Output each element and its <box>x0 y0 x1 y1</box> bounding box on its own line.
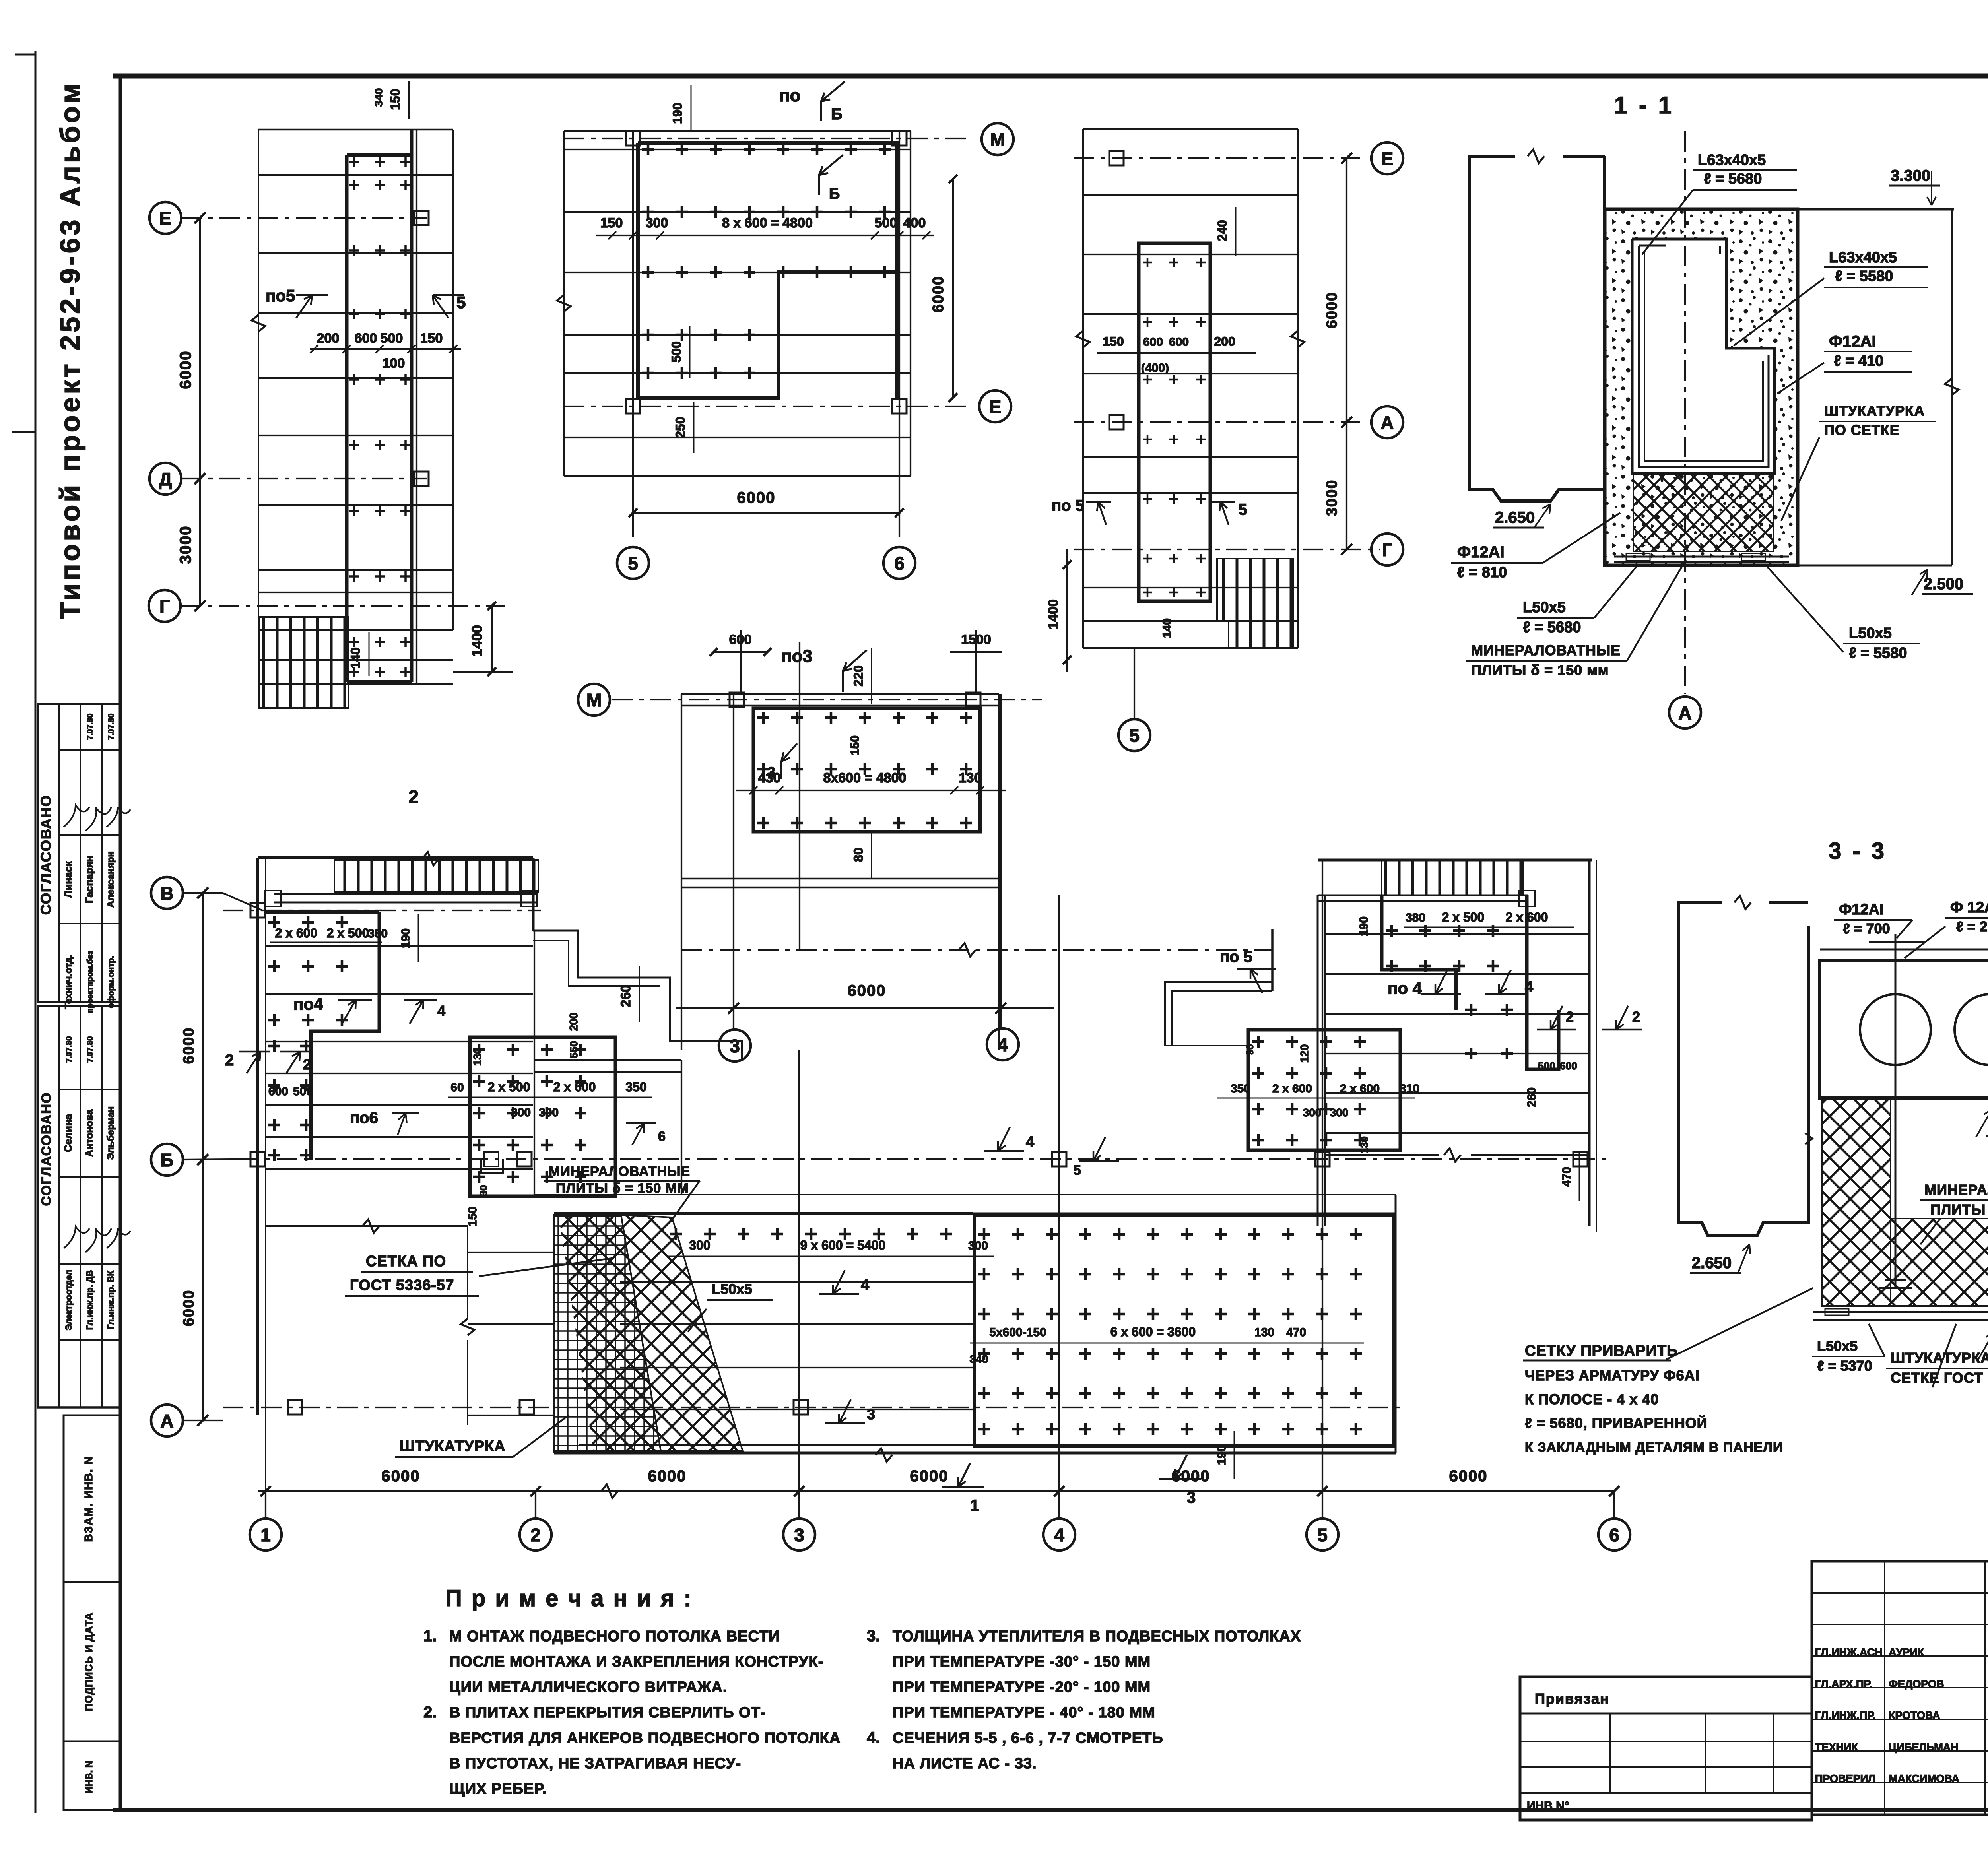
dim row 150 300 8x600=4800 500 400 <box>596 235 934 236</box>
svg-text:150: 150 <box>600 215 623 231</box>
svg-text:3: 3 <box>767 764 775 780</box>
svg-text:550: 550 <box>568 1041 580 1058</box>
axis Д dash line <box>181 478 427 479</box>
grid verticals 5 and 6 <box>632 131 634 537</box>
svg-text:7.07.80: 7.07.80 <box>65 1036 74 1063</box>
big plan: axis circles left В Б А <box>151 877 183 909</box>
svg-text:1.: 1. <box>423 1627 437 1645</box>
big plan: axis Б dash full width <box>184 1159 239 1160</box>
svg-text:(400): (400) <box>1141 361 1169 374</box>
svg-text:6000: 6000 <box>181 1027 197 1064</box>
bottom dim 6000 between 5 and 6 <box>633 512 899 514</box>
axis circle Д <box>149 463 181 495</box>
по3 axis verticals 3 and 4 <box>733 694 734 1008</box>
svg-text:Е: Е <box>159 208 172 229</box>
svg-text:СЕТКЕ ГОСТ 5336-57: СЕТКЕ ГОСТ 5336-57 <box>1891 1370 1988 1386</box>
big plan: top edge left wing <box>258 856 533 859</box>
sheet edge line left <box>35 51 37 1813</box>
svg-text:4.: 4. <box>867 1729 880 1746</box>
strip panel thick walls <box>345 155 349 682</box>
svg-text:ℓ = 5580: ℓ = 5580 <box>1849 645 1907 662</box>
3-3 plaster bottom <box>1813 1311 1988 1313</box>
svg-text:Б: Б <box>160 1150 173 1170</box>
dim 1400 left <box>1066 549 1068 672</box>
margin strip Взам.инв. <box>64 1415 121 1582</box>
svg-text:проектпром.без: проектпром.без <box>86 951 95 1013</box>
axis circle М right <box>982 123 1013 155</box>
svg-text:5: 5 <box>456 293 466 312</box>
svg-text:Типовой проект 252-9-63 Альбо: Типовой проект 252-9-63 Альбом <box>54 80 85 619</box>
svg-text:2 x 500: 2 x 500 <box>327 926 369 940</box>
svg-text:190: 190 <box>670 103 685 124</box>
margin strip Подпись и дата <box>64 1582 121 1741</box>
svg-text:5: 5 <box>1074 1163 1081 1178</box>
Е axis dash of по3 bay <box>681 949 1272 951</box>
axis Е dash line <box>564 406 970 407</box>
1-1 circle А <box>1669 697 1701 728</box>
thick panel boundary with step <box>638 143 897 398</box>
svg-text:П р и м е ч а н и я :: П р и м е ч а н и я : <box>445 1585 693 1611</box>
outer verticals <box>681 694 682 1050</box>
svg-text:9 x 600 = 5400: 9 x 600 = 5400 <box>800 1238 885 1252</box>
outer thin rect <box>564 149 911 150</box>
vertical dim line Е-Г <box>199 218 201 606</box>
lower plan: cut mark 5 <box>1079 1137 1119 1161</box>
svg-text:М: М <box>990 129 1005 150</box>
panel plus rows <box>642 144 891 155</box>
svg-text:L50x5: L50x5 <box>1817 1338 1858 1354</box>
svg-text:2.: 2. <box>423 1704 437 1721</box>
svg-text:5: 5 <box>628 553 638 574</box>
svg-text:2: 2 <box>303 1056 311 1073</box>
axis squares <box>1109 151 1124 165</box>
svg-text:Д: Д <box>159 469 172 489</box>
svg-text:1: 1 <box>970 1497 979 1514</box>
thick panel rect <box>753 708 980 832</box>
svg-text:4: 4 <box>1026 1134 1034 1151</box>
svg-text:300: 300 <box>646 215 668 231</box>
drawing 3: strip plan along axis 5 (middle) <box>1082 129 1084 648</box>
big plan: col 5 axis line <box>1322 860 1323 1491</box>
svg-text:380: 380 <box>1406 911 1425 924</box>
svg-text:Ф12АІ: Ф12АІ <box>1839 901 1884 918</box>
svg-text:А: А <box>160 1411 173 1431</box>
svg-text:СЕТКУ ПРИВАРИТЬ: СЕТКУ ПРИВАРИТЬ <box>1525 1343 1678 1359</box>
grid circle 3 <box>798 1491 800 1519</box>
svg-text:2.650: 2.650 <box>1692 1254 1732 1272</box>
axis square markers <box>414 211 429 225</box>
svg-text:2 x 600: 2 x 600 <box>275 926 318 940</box>
svg-text:ℓ = 200: ℓ = 200 <box>1956 918 1988 935</box>
svg-text:НА ЛИСТЕ АС - 33.: НА ЛИСТЕ АС - 33. <box>893 1755 1037 1772</box>
big plan: right wing slab lines <box>1325 933 1589 935</box>
big plan: right wing stair hatch <box>1382 860 1523 895</box>
svg-text:В ПУСТОТАХ, НЕ ЗАТРАГИВАЯ: В ПУСТОТАХ, НЕ ЗАТРАГИВАЯ НЕСУ- <box>449 1755 741 1772</box>
svg-text:КРОТОВА: КРОТОВА <box>1889 1709 1940 1721</box>
svg-text:6: 6 <box>894 553 905 574</box>
svg-text:ПРОВЕРИЛ: ПРОВЕРИЛ <box>1815 1773 1875 1785</box>
svg-text:470: 470 <box>1286 1326 1306 1339</box>
svg-text:6 x 600 = 3600: 6 x 600 = 3600 <box>1110 1325 1196 1339</box>
svg-text:ШТУКАТУРКА: ШТУКАТУРКА <box>400 1438 506 1455</box>
dim line Е-Г right <box>1346 158 1347 549</box>
svg-text:6000: 6000 <box>930 276 947 313</box>
lower plan: left corridor boundary <box>266 1225 468 1227</box>
svg-text:80: 80 <box>851 848 866 862</box>
svg-text:оформ.онтр.: оформ.онтр. <box>107 956 116 1008</box>
svg-text:L50x5: L50x5 <box>712 1281 752 1297</box>
svg-text:М: М <box>586 690 602 710</box>
svg-text:Эльберман: Эльберман <box>105 1106 116 1160</box>
dim 1400 right <box>491 606 493 672</box>
svg-text:1400: 1400 <box>469 625 485 657</box>
svg-text:2.650: 2.650 <box>1495 509 1535 526</box>
dim row 430 8x600=4800 130 <box>736 790 1006 791</box>
svg-text:L50x5: L50x5 <box>1849 625 1892 642</box>
axis circle Е <box>1371 142 1403 174</box>
svg-text:Гл.инж.пр. ВК: Гл.инж.пр. ВК <box>106 1270 116 1329</box>
svg-text:400: 400 <box>903 215 926 231</box>
svg-text:7.07.80: 7.07.80 <box>107 714 116 740</box>
svg-text:250: 250 <box>673 417 687 438</box>
svg-text:3.300: 3.300 <box>1891 167 1930 184</box>
3-3 anchor rod <box>1895 934 1897 1098</box>
svg-text:30: 30 <box>478 1185 489 1197</box>
svg-text:3000: 3000 <box>1324 479 1340 516</box>
svg-text:А: А <box>1678 702 1691 723</box>
dims 200 600 500 150 <box>310 348 461 350</box>
svg-text:Ф12АІ: Ф12АІ <box>1457 543 1505 561</box>
svg-text:1 - 1: 1 - 1 <box>1614 92 1674 118</box>
1-1 bottom plaster strips <box>1614 556 1789 558</box>
svg-text:ПРИ ТЕМПЕРАТУРЕ - 40° -: ПРИ ТЕМПЕРАТУРЕ - 40° - 180 ММ <box>893 1704 1155 1721</box>
svg-text:ЦИИ МЕТАЛЛИЧЕСКОГО ВИТРАЖ: ЦИИ МЕТАЛЛИЧЕСКОГО ВИТРАЖА. <box>449 1679 727 1696</box>
svg-text:по 5: по 5 <box>1052 497 1084 514</box>
svg-text:ВЗАМ. ИНВ. N: ВЗАМ. ИНВ. N <box>82 1456 95 1542</box>
axis circle Г <box>149 590 181 622</box>
big plan: stair landing double line <box>274 893 538 895</box>
svg-text:6: 6 <box>658 1129 666 1144</box>
svg-text:340: 340 <box>373 88 385 107</box>
lower plan: cut mark 4 upper <box>819 1270 859 1294</box>
svg-text:600: 600 <box>1560 1060 1577 1072</box>
grid circle 4 <box>1058 1491 1060 1519</box>
svg-text:300: 300 <box>689 1238 710 1252</box>
svg-text:6000: 6000 <box>1449 1467 1488 1485</box>
grid circle 2 <box>535 1491 536 1519</box>
big plan: break marks on dim line <box>601 1484 618 1498</box>
svg-text:по: по <box>779 86 800 105</box>
svg-text:350: 350 <box>1231 1082 1250 1095</box>
svg-text:ℓ = 700: ℓ = 700 <box>1843 920 1890 937</box>
svg-text:Селина: Селина <box>62 1114 74 1152</box>
axis М dash line <box>564 138 970 139</box>
big plan: right wing top edge <box>1318 859 1592 862</box>
big plan: dims 60 2x500 2x600 350 <box>448 1097 652 1098</box>
svg-text:Технич.отд.: Технич.отд. <box>63 955 74 1009</box>
svg-text:ПЛИТЫ δ = 150 мм: ПЛИТЫ δ = 150 мм <box>1471 662 1609 678</box>
svg-text:2: 2 <box>1566 1009 1574 1025</box>
lower plan: plus band top <box>670 1228 952 1240</box>
axis Е dash <box>1074 157 1360 159</box>
svg-text:3.: 3. <box>867 1627 880 1645</box>
lower plan: mineral wool crosshatch band <box>621 1215 743 1451</box>
svg-text:6000: 6000 <box>737 489 776 506</box>
svg-text:7.07.80: 7.07.80 <box>86 1036 95 1063</box>
svg-text:6000: 6000 <box>910 1467 949 1485</box>
3-3 slab with hollow cores <box>1820 960 1988 1098</box>
svg-text:380: 380 <box>368 927 388 940</box>
big plan: opening stepped boundary <box>533 931 742 1060</box>
svg-text:по 5: по 5 <box>1220 948 1252 966</box>
svg-text:500: 500 <box>1538 1060 1555 1072</box>
axis squares on М and Е <box>626 131 640 146</box>
svg-text:500: 500 <box>293 1085 313 1098</box>
1-1 ceiling line right <box>1798 208 1954 211</box>
svg-text:150: 150 <box>848 735 862 755</box>
big plan: axis А dash <box>184 1420 223 1421</box>
axis circle А <box>1371 406 1403 438</box>
svg-text:Г: Г <box>159 596 170 617</box>
svg-text:100: 100 <box>382 356 405 371</box>
big plan: right wing walls <box>1317 895 1319 1226</box>
axis circle М <box>578 684 610 716</box>
3-3 left wall <box>1678 926 1808 1235</box>
svg-text:ГЛ.ИНЖ.ПР.: ГЛ.ИНЖ.ПР. <box>1815 1709 1876 1721</box>
axis М dash line <box>612 699 1042 700</box>
signature table <box>1812 1561 1988 1815</box>
big plan: axis Б square markers <box>250 1152 265 1166</box>
svg-text:Е: Е <box>1381 148 1394 169</box>
lower plan: dims 6x600=3600 <box>970 1343 1364 1344</box>
big plan: right wing plus rows <box>1386 925 1499 937</box>
svg-text:3: 3 <box>730 1036 740 1056</box>
svg-text:3: 3 <box>794 1525 804 1545</box>
svg-text:ГЛ.ИНЖ.АСН: ГЛ.ИНЖ.АСН <box>1815 1646 1883 1658</box>
svg-text:150: 150 <box>388 89 402 110</box>
svg-text:Г: Г <box>1382 539 1392 560</box>
svg-text:500: 500 <box>875 215 897 231</box>
svg-text:470: 470 <box>1560 1167 1573 1187</box>
svg-text:2: 2 <box>225 1052 234 1069</box>
svg-text:130: 130 <box>959 770 982 786</box>
svg-text:по4: по4 <box>293 995 323 1013</box>
dim 600 top left <box>740 630 742 692</box>
svg-text:6000: 6000 <box>1172 1467 1210 1485</box>
svg-text:ПЛИТЫ δ = 150 ММ: ПЛИТЫ δ = 150 ММ <box>1930 1201 1988 1218</box>
grid circle 5 <box>1118 719 1150 751</box>
axis Г dash <box>1074 549 1380 550</box>
svg-text:190: 190 <box>399 928 412 948</box>
svg-text:130: 130 <box>1358 1136 1370 1153</box>
svg-text:2 x 600: 2 x 600 <box>1506 910 1548 924</box>
big plan: axis А square markers <box>288 1400 302 1415</box>
big plan: bottom dimension line <box>258 1490 1614 1492</box>
svg-text:ℓ = 410: ℓ = 410 <box>1834 353 1883 369</box>
3-3 left crosshatch column <box>1822 1098 1891 1306</box>
big plan: middle panel right (straddling col5) <box>1248 1030 1400 1150</box>
svg-text:220: 220 <box>851 665 866 686</box>
svg-text:МИНЕРАЛОВАТНЫЕ: МИНЕРАЛОВАТНЫЕ <box>1471 642 1621 658</box>
svg-text:СЕЧЕНИЯ 5-5 , 6-6 , 7-7 СМО: СЕЧЕНИЯ 5-5 , 6-6 , 7-7 СМОТРЕТЬ <box>893 1730 1163 1746</box>
double top line <box>681 693 999 695</box>
svg-text:200: 200 <box>1214 334 1235 349</box>
svg-text:К ПОЛОСЕ - 4 х 40: К ПОЛОСЕ - 4 х 40 <box>1525 1391 1659 1407</box>
svg-text:4: 4 <box>1525 979 1533 995</box>
svg-text:350: 350 <box>625 1080 646 1094</box>
svg-text:2: 2 <box>530 1525 541 1545</box>
lower central plan: top boundary <box>554 1212 973 1215</box>
svg-text:5x600-150: 5x600-150 <box>989 1326 1046 1339</box>
svg-text:500: 500 <box>669 341 683 362</box>
svg-text:ПОДПИСЬ И ДАТА: ПОДПИСЬ И ДАТА <box>83 1612 95 1711</box>
lower plan: bottom boundary <box>554 1452 1396 1455</box>
margin strip Инв N подл <box>64 1741 121 1810</box>
svg-text:150: 150 <box>420 331 443 346</box>
lower central plan: corridor bottom line <box>534 1194 1396 1195</box>
svg-text:5: 5 <box>1129 725 1140 746</box>
svg-text:Антонова: Антонова <box>84 1109 95 1157</box>
svg-text:L63x40x5: L63x40x5 <box>1829 249 1897 266</box>
svg-text:ℓ = 810: ℓ = 810 <box>1457 564 1507 581</box>
big plan: left wing slab lines <box>266 945 533 947</box>
3-3 anchor through wool <box>1895 1098 1897 1288</box>
big plan: left wing panel thick boundary <box>311 912 379 1160</box>
svg-text:150: 150 <box>1103 334 1124 349</box>
big plan: arrows 2 down right <box>1537 1006 1576 1030</box>
svg-text:2 x 500: 2 x 500 <box>1442 910 1485 924</box>
svg-text:8x600 = 4800: 8x600 = 4800 <box>823 770 907 786</box>
svg-text:ℓ = 5680, ПРИВАРЕННОЙ: ℓ = 5680, ПРИВАРЕННОЙ <box>1525 1415 1708 1431</box>
big plan: axis В square marker <box>250 903 265 918</box>
margin table 1 (Согласовано approvals) <box>38 704 121 1002</box>
svg-text:ИНВ N°: ИНВ N° <box>1527 1799 1569 1812</box>
dim 1500 top right <box>975 630 977 692</box>
svg-text:8 x 600 = 4800: 8 x 600 = 4800 <box>722 215 813 231</box>
sheet corner tick top left <box>15 54 35 56</box>
svg-text:4: 4 <box>1054 1525 1064 1545</box>
grid circle 6 <box>1613 1491 1615 1519</box>
svg-text:1400: 1400 <box>1046 599 1061 629</box>
big plan: col 4 axis line <box>1058 895 1060 1491</box>
svg-text:ТОЛЩИНА УТЕПЛИТЕЛЯ В ПОДВ: ТОЛЩИНА УТЕПЛИТЕЛЯ В ПОДВЕСНЫХ ПОТОЛКАХ <box>893 1628 1301 1645</box>
big plan: left wing plus rows <box>268 916 348 928</box>
svg-text:130: 130 <box>1254 1326 1274 1339</box>
hollow core circles <box>1860 994 1931 1065</box>
big plan: Б axis small square at 1240 <box>484 1152 499 1166</box>
big plan: opening boundary near по5 <box>1165 982 1272 1046</box>
big plan: left vertical dim line <box>202 893 204 1420</box>
svg-text:300: 300 <box>539 1106 559 1119</box>
svg-text:600: 600 <box>729 632 752 647</box>
svg-text:ЦИБЕЛЬМАН: ЦИБЕЛЬМАН <box>1889 1741 1959 1753</box>
label 5 arrow <box>433 295 448 318</box>
column 5 line down to circle <box>1134 648 1135 718</box>
svg-text:МАКСИМОВА: МАКСИМОВА <box>1889 1773 1959 1785</box>
svg-text:2.500: 2.500 <box>1924 575 1963 593</box>
svg-text:190: 190 <box>1357 916 1371 936</box>
big plan: axis В dash <box>184 892 223 894</box>
svg-text:по5: по5 <box>266 286 295 305</box>
svg-text:ЧЕРЕЗ АРМАТУРУ Ф6АІ: ЧЕРЕЗ АРМАТУРУ Ф6АІ <box>1525 1367 1700 1383</box>
svg-text:Ф 12АІ: Ф 12АІ <box>1950 899 1988 916</box>
1-1 right dim vertical <box>1951 209 1953 565</box>
sheet tick mid left <box>12 431 35 433</box>
svg-text:6000: 6000 <box>648 1467 687 1485</box>
axis squares <box>730 693 744 707</box>
big plan: stair hatch top left <box>334 860 538 892</box>
svg-text:ШТУКАТУРКА ПО: ШТУКАТУРКА ПО <box>1891 1350 1988 1366</box>
big plan: middle panel (straddling col2) <box>470 1037 615 1196</box>
lower plan: cut marks K1 K3 bottom <box>942 1463 984 1487</box>
big plan: left wall <box>256 858 259 1415</box>
svg-text:4: 4 <box>861 1277 869 1294</box>
bottom frame border <box>113 1808 1988 1812</box>
svg-text:600: 600 <box>268 1085 288 1098</box>
arrow 5 <box>1221 502 1229 525</box>
svg-text:6000: 6000 <box>382 1467 420 1485</box>
svg-text:3: 3 <box>867 1406 875 1423</box>
svg-text:200: 200 <box>567 1013 580 1031</box>
svg-text:500: 500 <box>381 331 403 346</box>
lower plan: cut mark 3 <box>825 1399 865 1423</box>
svg-text:ЩИХ РЕБЕР.: ЩИХ РЕБЕР. <box>449 1781 547 1797</box>
svg-text:Привязан: Привязан <box>1535 1690 1609 1707</box>
svg-text:260: 260 <box>618 985 633 1007</box>
lower plan: inner panel right part <box>974 1216 1393 1446</box>
svg-text:ПРИ ТЕМПЕРАТУРЕ -20° -: ПРИ ТЕМПЕРАТУРЕ -20° - 100 ММ <box>893 1679 1151 1696</box>
svg-text:600: 600 <box>1143 336 1163 349</box>
svg-text:Линаск: Линаск <box>62 861 74 898</box>
grid circle 6 <box>883 547 915 579</box>
svg-text:М ОНТАЖ ПОДВЕСНОГО ПОТОЛКА: М ОНТАЖ ПОДВЕСНОГО ПОТОЛКА ВЕСТИ <box>449 1628 780 1645</box>
3-3 bottom crosshatch band <box>1891 1219 1988 1306</box>
svg-text:600: 600 <box>355 331 377 346</box>
lower plan: dim 300 9x600=5400 300 <box>668 1256 994 1257</box>
svg-text:ℓ = 5680: ℓ = 5680 <box>1704 171 1762 187</box>
big plan: arrow 4 <box>410 1000 423 1024</box>
margin table 2 (Согласовано signatures) <box>38 1006 121 1407</box>
axis circle Е right <box>979 390 1011 422</box>
inner panel thick rect <box>1139 243 1210 601</box>
svg-text:А: А <box>1380 412 1394 433</box>
svg-text:2 x 600: 2 x 600 <box>553 1080 596 1094</box>
svg-text:СЕТКА ПО: СЕТКА ПО <box>366 1253 446 1270</box>
svg-text:190: 190 <box>1215 1445 1228 1465</box>
svg-text:200: 200 <box>317 331 340 346</box>
grid circle 3 (по3 plan) <box>733 1008 734 1029</box>
svg-text:6000: 6000 <box>181 1290 197 1327</box>
svg-text:Гл.инж.пр. ДВ: Гл.инж.пр. ДВ <box>85 1270 95 1330</box>
svg-text:L63x40x5: L63x40x5 <box>1698 152 1766 169</box>
svg-text:ИНВ. N: ИНВ. N <box>84 1761 95 1794</box>
svg-text:по3: по3 <box>781 646 812 666</box>
svg-text:4: 4 <box>437 1003 445 1019</box>
svg-text:3 - 3: 3 - 3 <box>1829 838 1887 864</box>
по3 centre vertical <box>799 642 800 950</box>
svg-text:ТЕХНИК: ТЕХНИК <box>1815 1741 1858 1753</box>
svg-text:ℓ = 5580: ℓ = 5580 <box>1835 268 1893 285</box>
svg-text:120: 120 <box>1298 1044 1310 1063</box>
svg-text:150: 150 <box>466 1207 479 1226</box>
по Б inner arrow <box>819 155 843 175</box>
svg-text:1: 1 <box>260 1525 271 1545</box>
svg-text:260: 260 <box>1525 1087 1538 1107</box>
svg-text:Алексанярн: Алексанярн <box>105 851 116 908</box>
svg-text:ГОСТ 5336-57: ГОСТ 5336-57 <box>350 1277 454 1294</box>
strip plan outer slab lines <box>258 130 259 700</box>
axis Е dash line <box>181 217 427 219</box>
